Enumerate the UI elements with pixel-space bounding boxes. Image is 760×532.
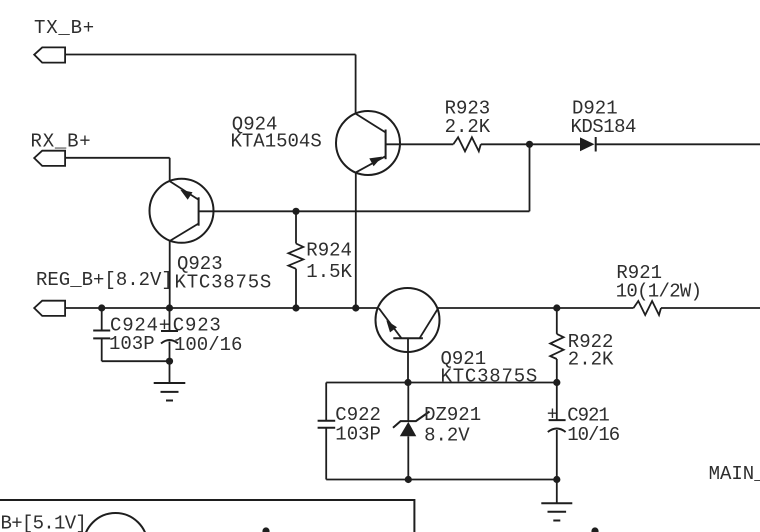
wire Q924 emitter down [355,172,357,308]
svg-text:RX_B+: RX_B+ [31,131,92,153]
wire R924 bottom [295,269,297,308]
wire bottom rail [326,479,557,481]
svg-text:MAIN_: MAIN_ [709,463,760,485]
wire D921 cathode right [596,143,760,145]
svg-text:KDS184: KDS184 [571,116,637,138]
wire Q923 bottom to rail [169,240,171,308]
wire RX to Q923 top [169,158,171,181]
resistor R922 wire top [556,308,558,334]
wire feedback vertical [529,144,531,211]
svg-text:B+[5.1V]: B+[5.1V] [1,513,87,532]
wire TX_B+ horizontal [65,54,356,56]
node bottom-left [262,527,269,532]
ground left [154,361,186,400]
svg-text:TX_B+: TX_B+ [34,17,95,39]
node C924 top [98,304,105,311]
wire REG_B+ rail left [65,307,378,309]
wire after R921 [661,307,760,309]
transistor Q921 [376,288,440,352]
node C923 top [166,304,173,311]
connector REG_B+ [34,301,65,316]
svg-text:8.2V: 8.2V [424,425,470,447]
svg-text:+: + [159,315,170,337]
ground right [541,480,572,521]
wire zener rail [326,382,557,384]
connector RX_B+ [34,151,65,166]
capacitor C924 [93,308,110,361]
wire R924 top [295,211,297,243]
wire R923 to D921 [481,143,580,145]
svg-text:KTC3875S: KTC3875S [441,366,539,388]
node R922 bottom [553,379,560,386]
svg-text:1.5K: 1.5K [306,261,352,283]
resistor R923 [453,137,481,151]
svg-text:10/16: 10/16 [567,424,620,446]
svg-text:2.2K: 2.2K [445,116,491,138]
wire Q921 base down [407,352,409,383]
node bottom-middle [591,527,598,532]
node ground junction [166,358,173,365]
connector TX_B+ [34,47,65,62]
wire TX to Q924 collector [355,55,357,114]
wire Q924 base to R923 [386,143,454,145]
wire RX_B+ horizontal [65,157,170,159]
capacitor C921 [548,383,566,480]
wire C924 bottom to ground node [102,360,170,362]
node R922 top [553,304,560,311]
block border bottom-left [0,500,414,532]
svg-text:2.2K: 2.2K [568,348,614,370]
transistor Q923 [150,179,214,243]
capacitor C923 [161,308,178,361]
capacitor C922 [318,383,336,480]
svg-text:10(1/2W): 10(1/2W) [616,281,702,303]
node junction R923/D921 [526,141,533,148]
svg-text:KTC3875S: KTC3875S [175,272,273,294]
svg-text:103P: 103P [109,333,155,355]
svg-text:R924: R924 [306,239,352,261]
svg-text:DZ921: DZ921 [424,404,481,426]
zener diode DZ921 [393,383,430,480]
node Q924 emitter rail [352,304,359,311]
svg-text:103P: 103P [335,423,381,445]
transistor circle bottom-left (clipped) [84,513,148,532]
resistor R924 [288,244,303,269]
node R924 bottom [292,304,299,311]
node DZ921 anode [405,476,412,483]
wire R922 bottom [556,359,558,383]
node C921 bottom [553,476,560,483]
node Q921 base / zener [404,379,411,386]
transistor Q924 [336,111,400,175]
wire feedback horizontal to Q923 base [199,210,530,212]
svg-text:100/16: 100/16 [174,334,242,356]
wire REG_B+ rail right [438,307,634,309]
svg-text:KTA1504S: KTA1504S [231,130,322,152]
svg-text:REG_B+[8.2V]: REG_B+[8.2V] [36,269,173,291]
diode D921 [580,137,596,152]
resistor R921 [634,301,662,315]
node R924 top [292,208,299,215]
svg-text:C921: C921 [567,404,609,426]
resistor R922 [550,334,563,359]
